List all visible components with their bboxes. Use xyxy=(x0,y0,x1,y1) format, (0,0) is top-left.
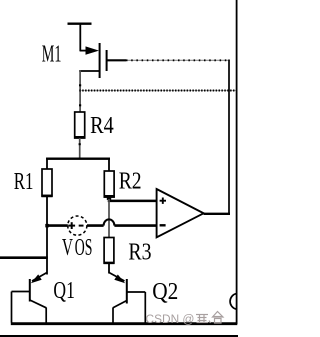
cropped glyph C at right edge xyxy=(230,294,236,310)
op-amp U1 xyxy=(157,189,204,237)
wire M1 source down to R4 xyxy=(79,70,81,112)
resistor R1 xyxy=(42,169,52,196)
resistor R2 xyxy=(104,171,114,197)
resistor R3 thick bottom edge xyxy=(104,262,115,265)
svg-text:R2: R2 xyxy=(119,168,142,195)
svg-text:R1: R1 xyxy=(14,168,34,195)
resistor R4 thick bottom edge xyxy=(74,136,85,139)
wire feedback up to gate net xyxy=(228,60,230,214)
svg-text:Q2: Q2 xyxy=(152,278,178,305)
wire R3 bottom to Q2 emitter xyxy=(108,263,110,274)
resistor R3 xyxy=(104,238,114,264)
transistor Q2 xyxy=(109,273,145,323)
svg-text:R4: R4 xyxy=(90,112,114,139)
op-amp minus input marker xyxy=(160,224,166,226)
wire M1 gate lead (solid part) xyxy=(107,59,126,61)
Vos minus terminal xyxy=(79,225,84,227)
wire R2 bottom to op-amp plus input xyxy=(109,197,157,201)
wire dotted net at y=90 xyxy=(79,90,236,92)
op-amp plus input marker xyxy=(160,198,166,204)
wire bottom rail xyxy=(11,322,238,325)
wire R4 bottom to rail xyxy=(79,138,81,158)
node R1-Vos junction xyxy=(45,224,49,228)
wire top rail R1-R2 xyxy=(47,159,109,171)
svg-text:OS: OS xyxy=(75,234,93,261)
wire bottom edge line xyxy=(0,335,238,337)
resistor R2 thick bottom edge xyxy=(104,195,115,198)
wire Vos line from R1 column to circle xyxy=(46,224,68,227)
label Vos xyxy=(62,234,93,261)
wire gate net dotted (to feedback) xyxy=(126,59,230,61)
svg-text:CSDN @: CSDN @ xyxy=(146,314,195,326)
voltage source Vos dashed circle xyxy=(68,216,87,235)
svg-text:V: V xyxy=(62,234,73,261)
transistor Q1 xyxy=(12,273,48,323)
wire right vertical net xyxy=(236,0,238,324)
svg-text:M1: M1 xyxy=(42,41,62,68)
wire hop over R2-R3 column xyxy=(104,219,115,225)
power supply bar VDD xyxy=(68,24,92,51)
transistor M1 xyxy=(79,43,106,78)
svg-text:Q1: Q1 xyxy=(53,277,75,304)
wire Vos circle to hop xyxy=(87,224,104,227)
wire R2 bottom down to R3 top xyxy=(108,199,110,238)
wire hop to op-amp minus input xyxy=(114,224,156,227)
Vos plus terminal xyxy=(68,222,75,229)
resistor R1 thick bottom edge xyxy=(41,195,52,198)
watermark CSDN xyxy=(146,312,224,326)
resistor R4 xyxy=(75,112,85,138)
svg-text:R3: R3 xyxy=(128,239,151,266)
wire left stub to Q1 emitter node xyxy=(0,256,48,259)
wire op-amp output xyxy=(204,213,230,215)
node R2 bottom junction xyxy=(107,196,111,200)
wire R1 bottom column xyxy=(46,196,48,275)
